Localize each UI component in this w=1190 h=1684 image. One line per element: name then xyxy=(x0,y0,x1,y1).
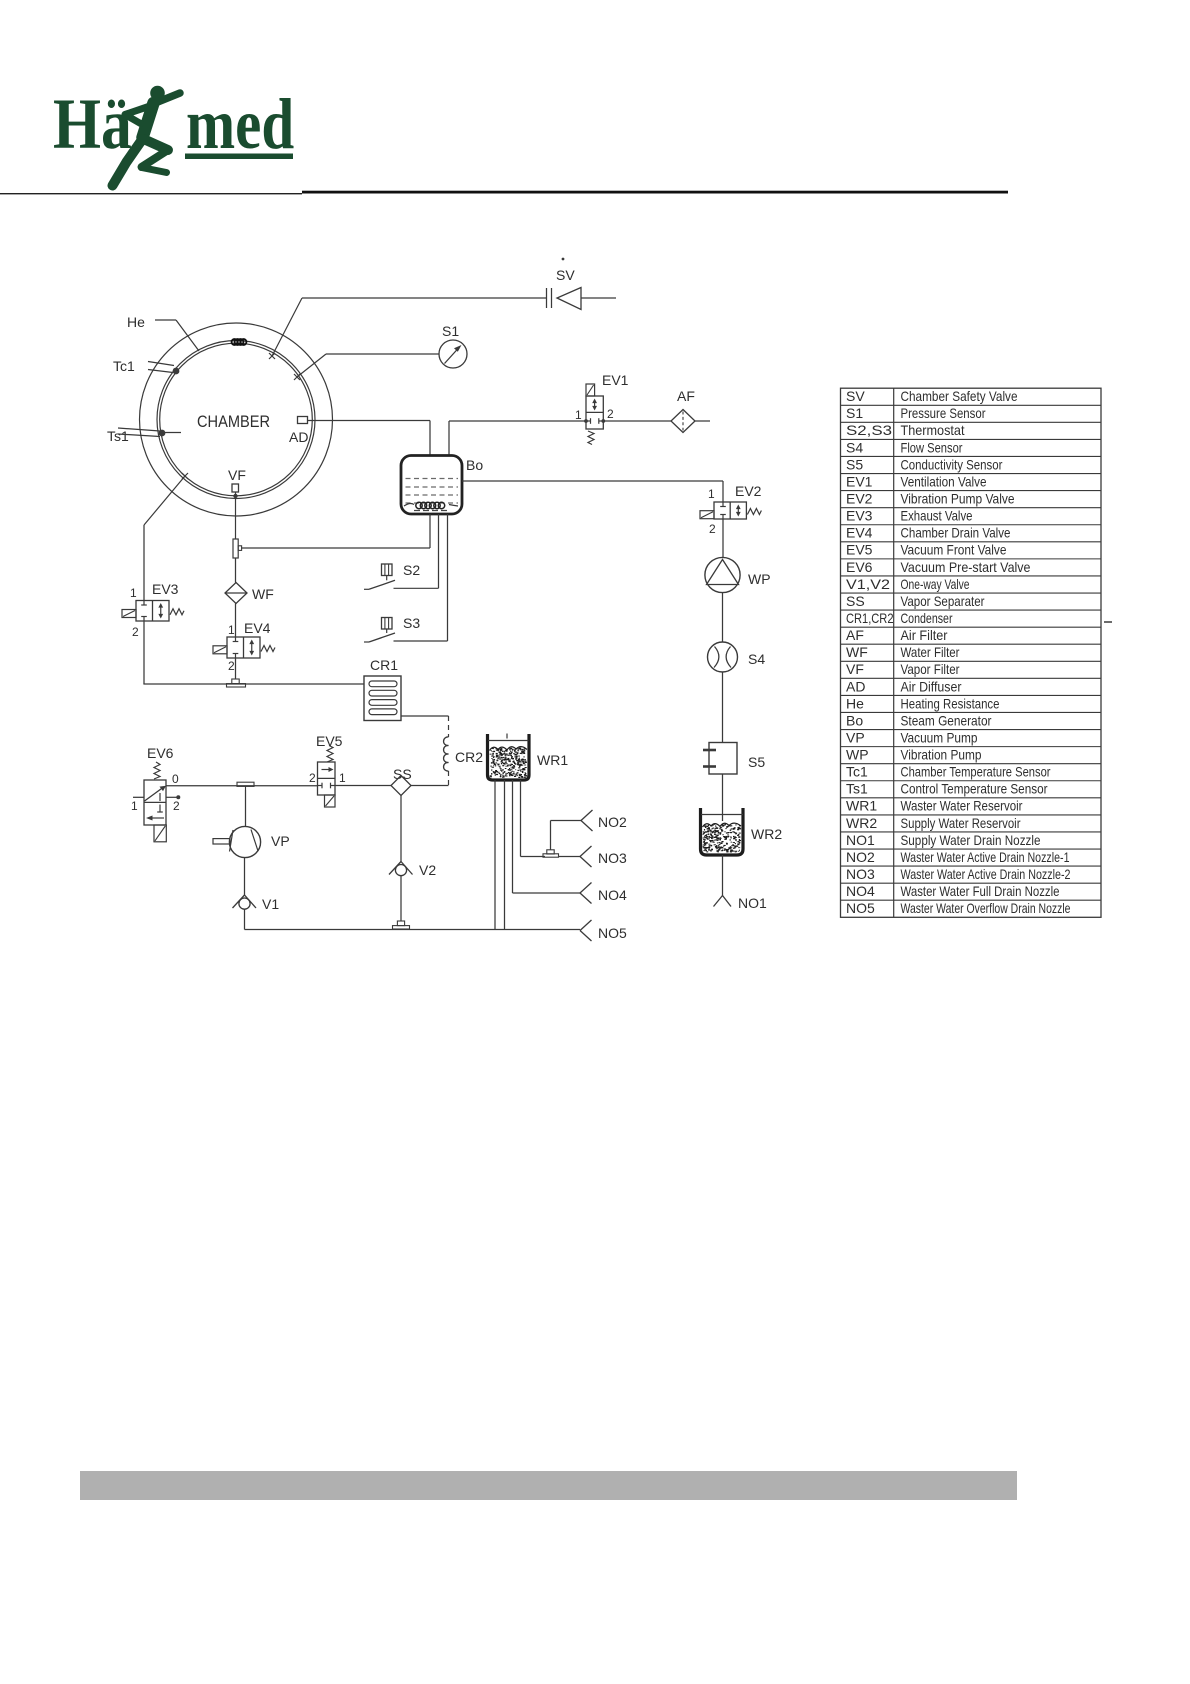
svg-text:WR1: WR1 xyxy=(537,752,568,768)
svg-text:NO4: NO4 xyxy=(846,883,875,899)
svg-text:Vacuum Pump: Vacuum Pump xyxy=(901,729,978,745)
svg-text:S5: S5 xyxy=(846,456,863,472)
svg-text:WR1: WR1 xyxy=(846,798,877,814)
svg-text:Conductivity Sensor: Conductivity Sensor xyxy=(901,456,1003,472)
svg-text:AD: AD xyxy=(846,678,865,694)
svg-text:CHAMBER: CHAMBER xyxy=(197,412,270,431)
svg-text:SV: SV xyxy=(556,267,575,283)
svg-text:VF: VF xyxy=(846,661,864,677)
svg-text:SV: SV xyxy=(846,388,865,404)
svg-text:Vapor Separater: Vapor Separater xyxy=(901,593,985,609)
svg-text:2: 2 xyxy=(132,625,139,639)
svg-text:EV5: EV5 xyxy=(846,542,873,558)
svg-text:EV4: EV4 xyxy=(846,525,873,541)
svg-text:SS: SS xyxy=(846,593,865,609)
svg-text:Tc1: Tc1 xyxy=(846,764,868,780)
svg-text:S1: S1 xyxy=(442,323,459,339)
svg-text:S4: S4 xyxy=(748,651,765,667)
svg-text:EV6: EV6 xyxy=(846,559,873,575)
svg-text:WF: WF xyxy=(846,644,868,660)
svg-text:2: 2 xyxy=(709,522,716,536)
svg-text:Air Filter: Air Filter xyxy=(901,627,948,643)
svg-text:CR1: CR1 xyxy=(370,657,398,673)
svg-text:Vibration Pump: Vibration Pump xyxy=(901,747,982,763)
svg-text:1: 1 xyxy=(339,771,346,785)
svg-text:2: 2 xyxy=(607,407,614,421)
svg-text:NO1: NO1 xyxy=(846,832,875,848)
svg-text:Supply Water Drain Nozzle: Supply Water Drain Nozzle xyxy=(901,832,1041,848)
svg-text:WR2: WR2 xyxy=(751,826,782,842)
svg-text:WP: WP xyxy=(846,747,869,763)
svg-text:Pressure Sensor: Pressure Sensor xyxy=(901,405,986,421)
svg-text:NO3: NO3 xyxy=(846,866,875,882)
svg-text:V1: V1 xyxy=(262,896,279,912)
svg-text:EV6: EV6 xyxy=(147,745,174,761)
svg-text:1: 1 xyxy=(130,586,137,600)
svg-text:0: 0 xyxy=(172,772,179,786)
svg-text:Bo: Bo xyxy=(466,457,483,473)
svg-text:Ventilation Valve: Ventilation Valve xyxy=(901,473,987,489)
svg-text:Thermostat: Thermostat xyxy=(901,422,965,438)
svg-text:SS: SS xyxy=(393,766,412,782)
svg-text:S3: S3 xyxy=(403,615,420,631)
svg-text:EV3: EV3 xyxy=(846,508,873,524)
svg-text:Control Temperature Sensor: Control Temperature Sensor xyxy=(901,781,1048,797)
svg-text:Bo: Bo xyxy=(846,712,863,728)
svg-text:Waster Water Overflow Drain No: Waster Water Overflow Drain Nozzle xyxy=(901,900,1071,916)
svg-text:Ts1: Ts1 xyxy=(107,428,129,444)
svg-text:EV1: EV1 xyxy=(846,473,873,489)
svg-text:V2: V2 xyxy=(419,862,436,878)
svg-text:Air Diffuser: Air Diffuser xyxy=(901,678,962,694)
svg-text:2: 2 xyxy=(309,771,316,785)
svg-text:Water Filter: Water Filter xyxy=(901,644,960,660)
svg-text:Chamber Temperature Sensor: Chamber Temperature Sensor xyxy=(901,764,1051,780)
svg-text:NO2: NO2 xyxy=(598,814,627,830)
svg-text:EV3: EV3 xyxy=(152,581,179,597)
svg-text:med: med xyxy=(186,85,294,165)
svg-text:NO5: NO5 xyxy=(598,925,627,941)
svg-text:WF: WF xyxy=(252,586,274,602)
svg-text:Chamber Safety Valve: Chamber Safety Valve xyxy=(901,388,1018,404)
svg-text:One-way Valve: One-way Valve xyxy=(901,576,970,592)
svg-text:Ts1: Ts1 xyxy=(846,781,868,797)
svg-text:He: He xyxy=(846,695,864,711)
svg-text:1: 1 xyxy=(228,623,235,637)
svg-text:S1: S1 xyxy=(846,405,863,421)
svg-text:NO4: NO4 xyxy=(598,887,627,903)
svg-text:2: 2 xyxy=(173,799,180,813)
svg-text:Waster Water Active Drain Nozz: Waster Water Active Drain Nozzle-2 xyxy=(901,866,1071,882)
svg-text:1: 1 xyxy=(131,799,138,813)
svg-text:S4: S4 xyxy=(846,439,863,455)
svg-text:Vapor Filter: Vapor Filter xyxy=(901,661,960,677)
svg-text:WR2: WR2 xyxy=(846,815,877,831)
svg-text:Waster Water Reservoir: Waster Water Reservoir xyxy=(901,798,1023,814)
svg-text:Steam Generator: Steam Generator xyxy=(901,712,992,728)
svg-text:EV1: EV1 xyxy=(602,372,629,388)
svg-text:Flow Sensor: Flow Sensor xyxy=(901,439,963,455)
svg-text:Condenser: Condenser xyxy=(901,610,953,626)
svg-text:Waster Water Active Drain Nozz: Waster Water Active Drain Nozzle-1 xyxy=(901,849,1070,865)
svg-text:S5: S5 xyxy=(748,754,765,770)
svg-text:S2: S2 xyxy=(403,562,420,578)
svg-text:1: 1 xyxy=(708,487,715,501)
svg-text:EV2: EV2 xyxy=(846,491,873,507)
svg-text:Vacuum Pre-start Valve: Vacuum Pre-start Valve xyxy=(901,559,1031,575)
svg-text:NO5: NO5 xyxy=(846,900,875,916)
svg-text:Heating Resistance: Heating Resistance xyxy=(901,695,1000,711)
svg-text:1: 1 xyxy=(575,408,582,422)
svg-text:Chamber Drain Valve: Chamber Drain Valve xyxy=(901,525,1011,541)
svg-text:CR2: CR2 xyxy=(455,749,483,765)
svg-text:EV4: EV4 xyxy=(244,620,271,636)
svg-text:AD: AD xyxy=(289,429,308,445)
svg-text:S2,S3: S2,S3 xyxy=(846,422,892,438)
svg-text:VF: VF xyxy=(228,467,246,483)
svg-text:NO3: NO3 xyxy=(598,850,627,866)
svg-text:Exhaust Valve: Exhaust Valve xyxy=(901,508,973,524)
svg-text:EV2: EV2 xyxy=(735,483,762,499)
svg-text:Vibration Pump Valve: Vibration Pump Valve xyxy=(901,491,1015,507)
svg-text:VP: VP xyxy=(271,833,290,849)
svg-text:WP: WP xyxy=(748,571,771,587)
svg-text:Hä: Hä xyxy=(53,84,132,165)
svg-text:2: 2 xyxy=(228,659,235,673)
svg-text:AF: AF xyxy=(677,388,695,404)
svg-text:NO1: NO1 xyxy=(738,895,767,911)
svg-text:CR1,CR2: CR1,CR2 xyxy=(846,610,894,626)
svg-text:VP: VP xyxy=(846,729,865,745)
svg-text:Supply Water Reservoir: Supply Water Reservoir xyxy=(901,815,1021,831)
svg-text:He: He xyxy=(127,314,145,330)
svg-text:V1,V2: V1,V2 xyxy=(846,576,890,592)
svg-text:Tc1: Tc1 xyxy=(113,358,135,374)
svg-text:EV5: EV5 xyxy=(316,733,343,749)
svg-text:Waster Water Full Drain Nozzle: Waster Water Full Drain Nozzle xyxy=(901,883,1060,899)
svg-text:Vacuum Front Valve: Vacuum Front Valve xyxy=(901,542,1007,558)
svg-text:AF: AF xyxy=(846,627,864,643)
svg-text:NO2: NO2 xyxy=(846,849,875,865)
